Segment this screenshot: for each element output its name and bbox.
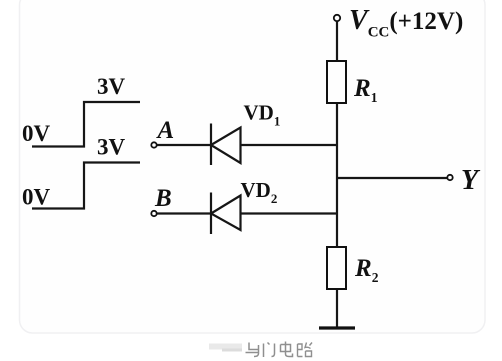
input waveform A step (0V to 3V) [32,102,140,147]
svg-text:A: A [156,117,175,144]
svg-text:0V: 0V [22,121,51,146]
svg-text:B: B [154,185,172,212]
wire output node to terminal Y [337,177,447,179]
char 路 [298,343,313,357]
resistor R2 [327,247,346,289]
terminal VCC [334,15,340,21]
wire diode VD2 to bus node [240,212,338,214]
char 门 [264,343,275,358]
wire input B to diode VD2 [157,212,210,214]
char 电 [281,342,293,357]
faint smudge before caption [209,344,242,350]
wire diode VD1 to bus node [240,144,338,146]
ground [319,326,355,329]
svg-text:0V: 0V [22,185,51,210]
char 与 [246,343,260,357]
resistor R1 [327,61,346,103]
wire bus: R1 bottom through nodes to R2 top [336,103,338,247]
diode VD1 [211,124,241,166]
terminal A (input) [151,142,156,147]
wire VCC terminal to resistor R1 [336,22,338,62]
svg-text:3V: 3V [97,74,126,99]
svg-text:3V: 3V [97,135,126,160]
terminal Y (output) [447,175,452,180]
wire input A to diode VD1 [157,144,210,146]
svg-text:Y: Y [461,165,481,196]
diode VD2 [211,193,241,235]
wire R2 bottom to ground [336,289,338,327]
input waveform B step (0V to 3V) [32,163,140,209]
caption: AND gate circuit (Chinese characters drawn as strokes) [209,342,312,358]
terminal B (input) [151,211,156,216]
